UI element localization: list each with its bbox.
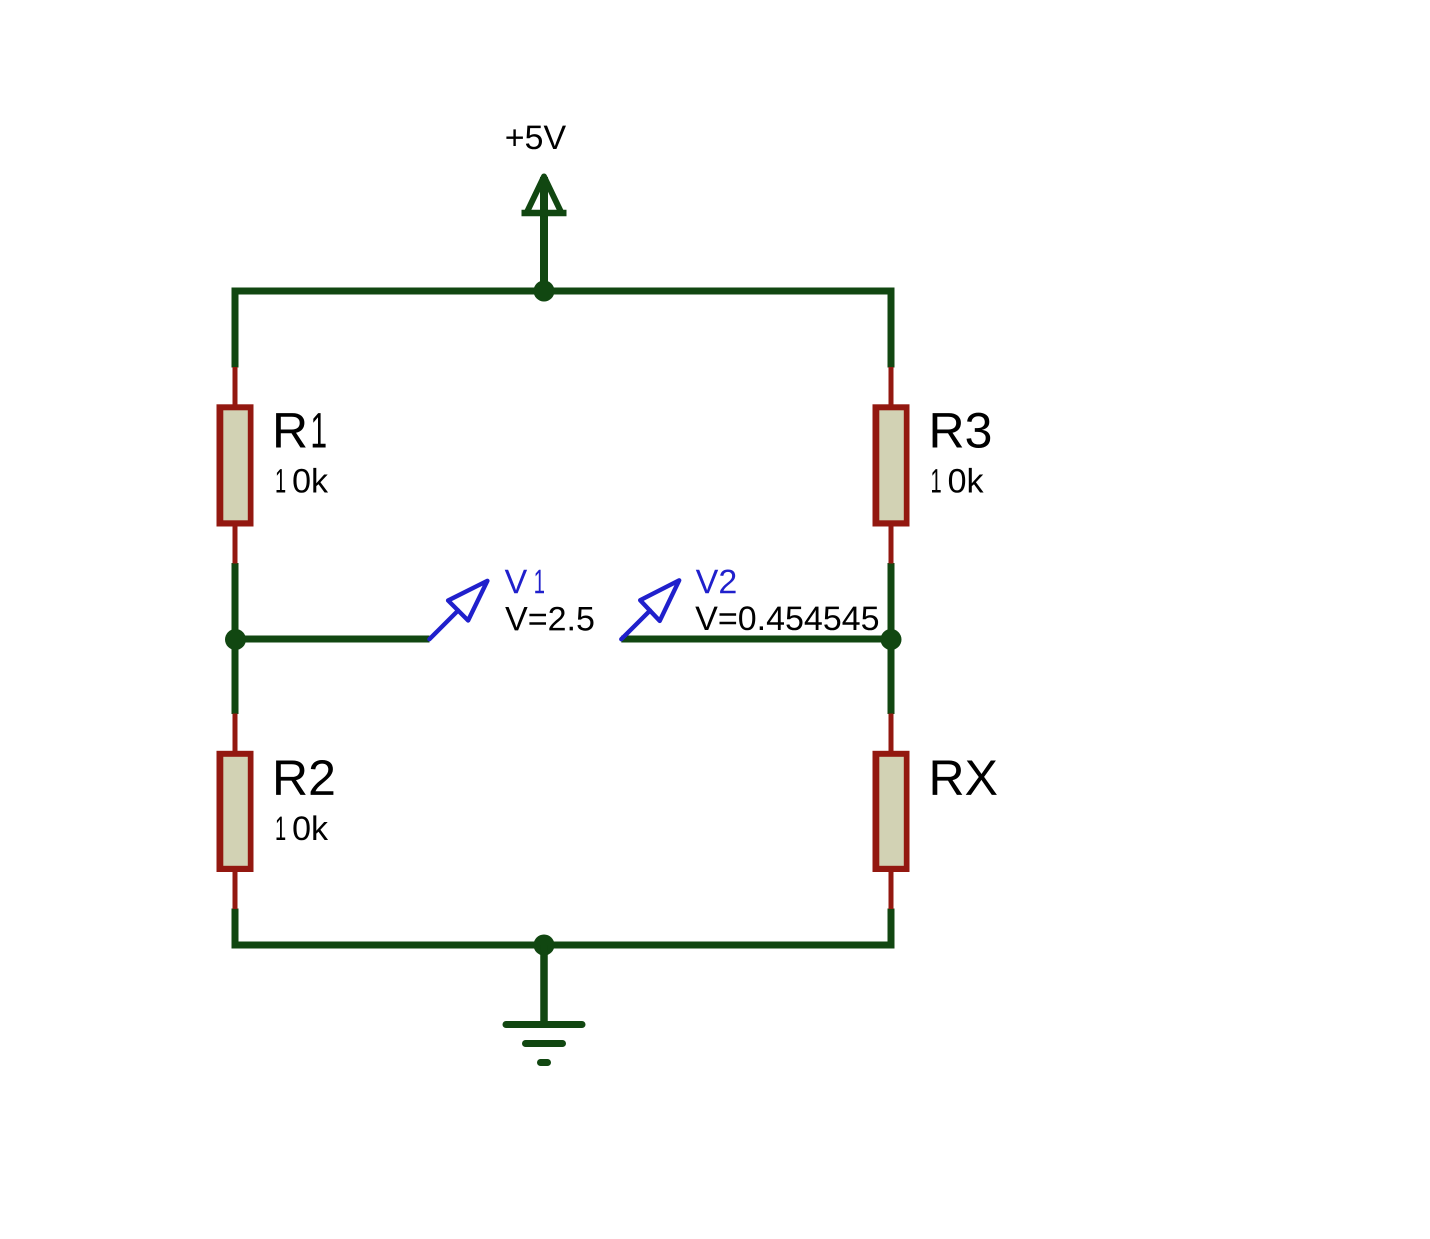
value 10k (R2) bbox=[277, 815, 329, 840]
resistor R2 bbox=[217, 714, 254, 910]
label RX bbox=[933, 761, 997, 795]
resistor R1 bbox=[217, 367, 254, 564]
node junction left mid bbox=[225, 629, 246, 650]
value V=2.5 bbox=[505, 607, 593, 631]
label V2 bbox=[696, 570, 736, 594]
resistor RX bbox=[873, 714, 910, 910]
wire left rail middle segment bbox=[232, 563, 239, 714]
value 10k (R1) bbox=[277, 468, 329, 493]
wire right rail upper segment bbox=[888, 288, 895, 368]
value 10k (R3) bbox=[932, 468, 984, 493]
wire left rail lower segment bbox=[232, 909, 239, 949]
value V=0.454545 bbox=[695, 606, 878, 630]
label R3 bbox=[933, 413, 991, 448]
label R2 bbox=[276, 760, 333, 795]
node junction right mid bbox=[881, 629, 902, 650]
wire right rail middle segment bbox=[888, 563, 895, 714]
node junction bottom (ground) bbox=[534, 935, 555, 956]
wire mid right: probe V2 to node bbox=[621, 636, 891, 643]
resistor R3 bbox=[873, 367, 910, 564]
label R1 bbox=[276, 413, 326, 447]
wire left rail upper segment bbox=[232, 288, 239, 368]
wire right rail lower segment bbox=[888, 909, 895, 949]
voltage probe V1 bbox=[429, 581, 487, 639]
label V1 bbox=[505, 570, 544, 593]
node junction top (power) bbox=[534, 281, 555, 302]
ground symbol bbox=[506, 945, 582, 1063]
wire bottom rail bbox=[232, 942, 895, 949]
voltage probe V2 bbox=[621, 580, 679, 639]
power symbol +5V bbox=[522, 177, 567, 292]
label +5V bbox=[506, 126, 566, 150]
wire mid left: node to probe V1 bbox=[235, 636, 430, 643]
wire top rail bbox=[232, 288, 895, 295]
